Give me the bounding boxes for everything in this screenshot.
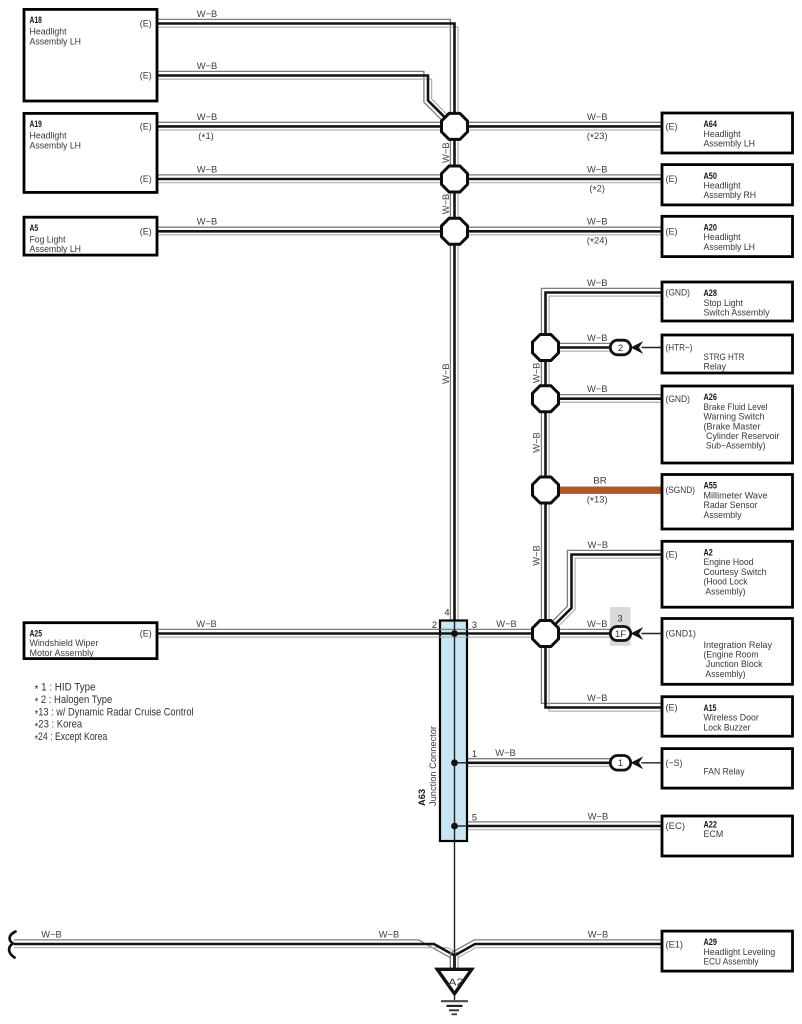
component A19 Headlight Assembly LH — [24, 113, 157, 192]
junction J6 (octagon node) — [533, 477, 559, 503]
wire W-B J4 to STRG HTR relay connector — [558, 343, 610, 351]
lead into STRG HTR relay (HTR-) — [642, 347, 663, 349]
svg-text:1F: 1F — [615, 629, 627, 639]
wire W-B spine J3 down to junction connector A63 — [450, 245, 458, 621]
svg-text:2: 2 — [432, 620, 437, 630]
svg-text:W−B: W−B — [587, 383, 608, 394]
svg-text:W−B: W−B — [587, 111, 608, 122]
svg-text:A26: A26 — [704, 392, 718, 402]
svg-text:Assembly LH: Assembly LH — [704, 242, 756, 252]
component A20 Headlight Assembly LH — [662, 216, 793, 256]
svg-text:Integration Relay: Integration Relay — [704, 640, 773, 650]
svg-text:Assembly LH: Assembly LH — [30, 244, 82, 254]
svg-text:(Hood Lock: (Hood Lock — [704, 577, 748, 587]
svg-text:(Engine Room: (Engine Room — [704, 650, 759, 660]
svg-text:(SGND): (SGND) — [666, 485, 696, 495]
svg-text:Headlight: Headlight — [704, 232, 741, 242]
svg-text:(E): (E) — [140, 227, 152, 237]
svg-text:Warning Switch: Warning Switch — [704, 412, 765, 422]
svg-text:STRG HTR: STRG HTR — [704, 352, 745, 362]
svg-text:(E): (E) — [140, 122, 152, 132]
svg-text:Radar Sensor: Radar Sensor — [704, 500, 758, 510]
svg-text:W−B: W−B — [530, 363, 541, 384]
wire W-B left feed into ground point A2 — [14, 940, 458, 970]
svg-text:W−B: W−B — [588, 810, 609, 821]
svg-text:(HTR−): (HTR−) — [666, 343, 693, 353]
A63 stub to pin 5 — [455, 825, 468, 827]
wire W-B row A19 pin2 through junction J2 to A50 — [157, 175, 662, 183]
component A15 Wireless Door Lock Buzzer — [662, 697, 793, 737]
svg-text:ECU Assembly: ECU Assembly — [704, 957, 759, 967]
svg-text:W−B: W−B — [197, 8, 218, 19]
wire W-B hub J7 down to A15 — [541, 646, 662, 711]
svg-text:Courtesy Switch: Courtesy Switch — [704, 567, 767, 577]
component A55 Millimeter Wave Radar Sensor Assembly — [662, 475, 793, 530]
svg-text:1: 1 — [618, 758, 623, 769]
ground hatch — [441, 994, 468, 1015]
wire BR J6 to A55 radar sensor — [556, 487, 662, 494]
wire W-B J4 to J5 — [541, 360, 549, 387]
svg-text:Fog Light: Fog Light — [30, 235, 66, 245]
node A63 pin2/3 junction dot — [451, 630, 458, 637]
svg-text:Headlight Leveling: Headlight Leveling — [704, 947, 776, 957]
svg-text:Cylinder Reservoir: Cylinder Reservoir — [704, 431, 780, 441]
svg-text:A25: A25 — [30, 628, 43, 638]
svg-text:W−B: W−B — [440, 142, 451, 163]
svg-text:Assembly): Assembly) — [704, 669, 746, 679]
wire W-B J5 to J6 — [541, 411, 549, 478]
svg-text:A22: A22 — [704, 819, 718, 829]
svg-text:A55: A55 — [704, 481, 718, 491]
svg-text:(Brake Master: (Brake Master — [704, 421, 761, 431]
svg-text:W−B: W−B — [587, 277, 608, 288]
svg-text:W−B: W−B — [588, 928, 609, 939]
svg-text:W−B: W−B — [530, 545, 541, 566]
svg-text:(GND): (GND) — [666, 394, 691, 404]
wire W-B A25 through connector A63 pin2-pin3 to hub J7 — [157, 629, 533, 637]
component A22 ECM — [662, 816, 793, 856]
svg-text:W−B: W−B — [587, 692, 608, 703]
component A5 Fog Light Assembly LH — [24, 217, 157, 255]
svg-text:Assembly LH: Assembly LH — [704, 139, 756, 149]
svg-text:Assembly LH: Assembly LH — [30, 140, 82, 150]
junction hub J7 (octagon node) — [533, 621, 559, 647]
svg-text:2: 2 — [618, 343, 623, 354]
label A63 Junction Connector (rotated) — [417, 726, 439, 806]
svg-text:A2: A2 — [448, 978, 463, 989]
connector pin 1F of integration relay — [610, 627, 630, 641]
wire W-B A63 pin5 to A22 ECM — [468, 822, 663, 830]
node A63 pin1 junction dot — [451, 759, 458, 766]
wire W-B from A2 hood switch diagonal into hub J7 — [552, 550, 662, 627]
A63 stub to pin 1 — [455, 762, 468, 764]
junction J3 (octagon node) — [442, 218, 468, 244]
junction connector A63 body — [440, 621, 467, 842]
svg-text:Junction Block: Junction Block — [704, 659, 763, 669]
svg-text:(E): (E) — [140, 629, 152, 639]
svg-text:5: 5 — [472, 813, 477, 823]
component A28 Stop Light Switch Assembly — [662, 282, 793, 321]
svg-text:4: 4 — [444, 608, 449, 618]
svg-text:(E): (E) — [666, 174, 678, 184]
svg-text:1: 1 — [472, 749, 477, 759]
wire W-B from A18 pin1 down to junction J1 — [157, 19, 458, 113]
component A26 Brake Fluid Level Warning Switch — [662, 386, 793, 463]
junction J5 (octagon node) — [533, 386, 559, 412]
component A50 Headlight Assembly RH — [662, 165, 793, 205]
svg-text:3: 3 — [617, 614, 622, 624]
component A2 Engine Hood Courtesy Switch — [662, 541, 793, 607]
lead into FAN relay (-S) — [642, 762, 663, 764]
svg-text:W−B: W−B — [587, 163, 608, 174]
svg-text:Motor Assembly: Motor Assembly — [30, 648, 94, 658]
svg-text:ECM: ECM — [704, 829, 724, 839]
wire W-B crossing A63 at pins 2-3 — [440, 629, 468, 637]
svg-text:W−B: W−B — [587, 332, 608, 343]
wire W-B row A19 pin1 through junction J1 to A64 — [157, 122, 662, 130]
svg-text:Switch Assembly: Switch Assembly — [704, 308, 770, 318]
male connector arrow STRG HTR relay — [631, 341, 644, 354]
svg-text:A5: A5 — [30, 223, 39, 233]
svg-text:W−B: W−B — [440, 194, 451, 215]
svg-text:W−B: W−B — [197, 216, 218, 227]
svg-text:BR: BR — [593, 474, 607, 485]
svg-text:Windshield Wiper: Windshield Wiper — [30, 638, 99, 648]
svg-text:A63: A63 — [417, 789, 428, 806]
lead into integration relay (GND1) — [642, 633, 663, 635]
highlight pad behind connector 1F — [610, 607, 631, 646]
svg-text:(E): (E) — [140, 71, 152, 81]
svg-text:FAN Relay: FAN Relay — [704, 767, 745, 777]
svg-text:Wireless Door: Wireless Door — [704, 713, 759, 723]
component A18 Headlight Assembly LH — [24, 9, 157, 101]
svg-text:(−S): (−S) — [666, 758, 683, 768]
junction J4 (octagon node) — [533, 335, 559, 361]
svg-text:Assembly): Assembly) — [704, 586, 746, 596]
svg-text:Headlight: Headlight — [704, 129, 741, 139]
svg-text:A2: A2 — [704, 548, 713, 558]
svg-text:Relay: Relay — [704, 362, 727, 372]
svg-text:3: 3 — [472, 620, 477, 630]
svg-text:(E): (E) — [666, 550, 678, 560]
svg-text:Brake Fluid Level: Brake Fluid Level — [704, 402, 768, 412]
svg-text:Stop Light: Stop Light — [704, 298, 744, 308]
svg-text:(E): (E) — [140, 19, 152, 29]
wire W-B from A18 pin2 diagonal into junction J1 — [157, 71, 448, 121]
wire W-B row A5 through junction J3 to A20 — [157, 227, 662, 235]
svg-text:(E): (E) — [666, 227, 678, 237]
component A29 Headlight Leveling ECU Assembly — [662, 931, 793, 971]
wire W-B spine J1 to J2 — [450, 140, 458, 166]
svg-text:(E): (E) — [666, 122, 678, 132]
svg-text:W−B: W−B — [588, 539, 609, 550]
svg-text:W−B: W−B — [496, 618, 517, 629]
connector pin 1 of FAN relay — [610, 756, 630, 771]
connector pin 2 of STRG HTR relay — [610, 340, 630, 355]
svg-text:Assembly LH: Assembly LH — [30, 36, 82, 46]
svg-text:A64: A64 — [704, 119, 718, 129]
svg-text:A29: A29 — [704, 937, 718, 947]
wire W-B spine J2 to J3 — [450, 192, 458, 218]
svg-text:W−B: W−B — [197, 60, 218, 71]
relay FAN Relay — [662, 749, 793, 789]
svg-text:W−B: W−B — [41, 928, 62, 939]
svg-text:(E): (E) — [140, 174, 152, 184]
svg-text:Millimeter Wave: Millimeter Wave — [704, 490, 768, 500]
harness break symbol (continuation squiggle) — [9, 932, 15, 958]
wire single lead A63 bottom to ground point A2 — [454, 841, 456, 969]
wire W-B hub J7 to integration relay connector 1F — [558, 629, 610, 637]
svg-text:(E): (E) — [666, 703, 678, 713]
node A63 pin5 junction dot — [451, 823, 458, 830]
svg-text:W−B: W−B — [197, 111, 218, 122]
svg-text:A50: A50 — [704, 171, 718, 181]
junction J1 (octagon node) — [442, 113, 468, 139]
svg-text:W−B: W−B — [587, 216, 608, 227]
svg-text:Assembly RH: Assembly RH — [704, 190, 757, 200]
svg-text:Lock Buzzer: Lock Buzzer — [704, 722, 751, 732]
wire W-B from A29 into ground point A2 — [450, 940, 662, 970]
relay Integration Relay (Engine Room Junction Block Assembly) — [662, 619, 793, 685]
svg-text:W−B: W−B — [379, 928, 400, 939]
relay STRG HTR Relay — [662, 335, 793, 373]
svg-text:W−B: W−B — [197, 163, 218, 174]
svg-text:A18: A18 — [30, 15, 42, 25]
A63 internal bus — [454, 622, 456, 841]
component A25 Windshield Wiper Motor Assembly — [24, 623, 157, 659]
svg-text:(E1): (E1) — [666, 940, 684, 950]
notes legend — [35, 682, 194, 746]
svg-text:A19: A19 — [30, 119, 42, 129]
svg-text:(GND1): (GND1) — [666, 629, 697, 639]
svg-text:Headlight: Headlight — [704, 181, 741, 191]
svg-text:Junction Connector: Junction Connector — [428, 726, 439, 806]
junction J2 (octagon node) — [442, 166, 468, 192]
svg-text:Headlight: Headlight — [30, 131, 67, 141]
svg-text:Sub−Assembly): Sub−Assembly) — [704, 441, 766, 451]
male connector arrow FAN relay — [631, 756, 644, 769]
svg-text:A15: A15 — [704, 703, 717, 713]
svg-text:W−B: W−B — [196, 618, 217, 629]
svg-text:W−B: W−B — [440, 363, 451, 384]
wire W-B J6 down to hub junction J7 — [541, 502, 549, 621]
svg-text:A28: A28 — [704, 288, 718, 298]
svg-text:W−B: W−B — [587, 618, 608, 629]
ground point A2 triangle — [437, 969, 471, 994]
svg-text:Headlight: Headlight — [30, 27, 67, 37]
svg-text:W−B: W−B — [530, 432, 541, 453]
svg-text:(EC): (EC) — [666, 821, 686, 831]
svg-text:A20: A20 — [704, 223, 718, 233]
male connector arrow integration relay — [631, 627, 644, 640]
wire W-B J5 to A26 — [558, 395, 662, 403]
svg-text:Assembly: Assembly — [704, 510, 742, 520]
component A64 Headlight Assembly LH — [662, 113, 793, 153]
wire W-B from A28 down to junction J4 — [541, 288, 662, 335]
wire W-B A63 pin1 to FAN relay connector — [468, 759, 611, 767]
svg-text:(GND): (GND) — [666, 288, 691, 298]
svg-text:Engine Hood: Engine Hood — [704, 557, 754, 567]
svg-text:W−B: W−B — [495, 747, 516, 758]
